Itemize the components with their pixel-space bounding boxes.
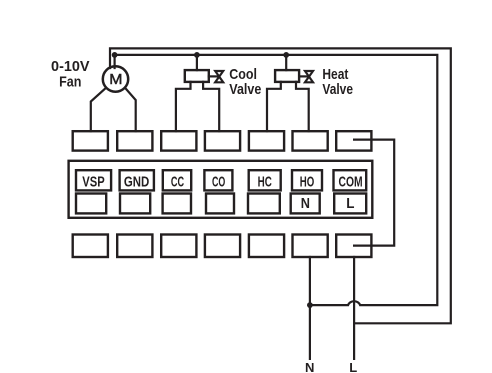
connector terminal bottom 2 — [117, 235, 152, 258]
connector terminal bottom 3 — [161, 235, 196, 258]
terminal HO — [292, 170, 322, 190]
valve actuator (cool) — [185, 70, 209, 82]
terminal row2 blank 4 — [206, 194, 234, 214]
wire: COM bridge (top terminal 7 to bottom terminal 7) — [354, 140, 394, 246]
terminal strip outline — [69, 161, 373, 218]
terminal row2 blank 3 — [163, 194, 191, 214]
svg-text:Valve: Valve — [322, 81, 353, 98]
junction dot: cool valve N tap — [194, 52, 200, 58]
connector terminal bottom 6 — [293, 235, 328, 258]
terminal CO — [204, 170, 232, 190]
wire: heat valve HO lead — [296, 82, 309, 131]
svg-text:COM: COM — [339, 173, 363, 190]
svg-text:GND: GND — [124, 173, 150, 190]
wire: motor GND lead (right) — [125, 88, 135, 131]
svg-text:N: N — [301, 195, 310, 212]
svg-text:HO: HO — [300, 173, 315, 190]
connector terminal top 7 — [336, 131, 371, 150]
connector terminal top 1 — [73, 131, 108, 150]
wire: heat valve HC lead — [267, 82, 281, 131]
connector terminal top 3 — [161, 131, 196, 150]
terminal row2 blank 5 — [248, 194, 280, 214]
connector terminal top 4 — [205, 131, 240, 150]
wire: L supply bus (top line, right side, to L drop) — [110, 48, 451, 323]
label "Heat Valve" — [322, 66, 353, 98]
svg-text:CO: CO — [212, 173, 225, 190]
wire: cool valve CC lead — [176, 82, 191, 131]
connector terminal top 6 — [293, 131, 328, 150]
wire: motor VSP lead (left) — [91, 88, 106, 131]
connector terminal top 5 — [249, 131, 284, 150]
connector terminal bottom 1 — [73, 235, 108, 258]
junction dot: N branch — [307, 302, 313, 308]
terminal N — [291, 194, 320, 214]
svg-text:L: L — [346, 195, 354, 212]
wire: cool valve feed — [196, 55, 198, 70]
wire: heat valve feed — [285, 55, 287, 70]
svg-text:Fan: Fan — [59, 74, 81, 91]
terminal GND — [120, 170, 154, 190]
connector terminal bottom 4 — [205, 235, 240, 258]
svg-text:HC: HC — [258, 173, 272, 190]
terminal L — [334, 194, 366, 214]
terminal VSP — [76, 170, 111, 190]
svg-text:L: L — [349, 360, 357, 373]
terminal COM — [334, 170, 367, 190]
connector terminal bottom 7 — [336, 235, 371, 258]
valve actuator (heat) — [275, 70, 299, 82]
terminal CC — [163, 170, 191, 190]
svg-text:M: M — [109, 71, 122, 88]
wire: cool valve CO lead — [203, 82, 219, 131]
label "0-10V Fan" — [51, 58, 90, 90]
connector terminal bottom 5 — [249, 235, 284, 258]
svg-text:Valve: Valve — [229, 81, 261, 98]
terminal row2 blank 2 — [120, 194, 150, 214]
svg-text:N: N — [305, 360, 314, 373]
connector terminal top 2 — [117, 131, 152, 150]
svg-text:VSP: VSP — [82, 173, 104, 190]
junction dot: motor N tap — [112, 52, 118, 58]
valve body (cool) — [209, 71, 223, 82]
valve body (heat) — [299, 71, 313, 82]
terminal HC — [249, 170, 281, 190]
wire: N drop — [309, 257, 311, 359]
junction dot: heat valve N tap — [283, 52, 289, 58]
wire: N supply bus (second top line, right side, hop over L, to N junction) — [115, 55, 438, 305]
label "Cool Valve" — [229, 66, 261, 98]
svg-text:CC: CC — [171, 173, 184, 190]
motor M (0-10V fan) — [103, 66, 128, 91]
terminal row2 blank 1 — [76, 194, 106, 214]
wire: L drop — [353, 257, 355, 359]
